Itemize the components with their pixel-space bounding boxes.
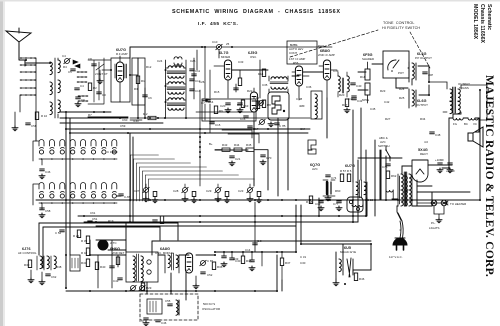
scattered labels (63, 57, 426, 131)
antenna coupling coil (174, 57, 182, 65)
RF transformer T2 (165, 57, 187, 118)
svg-text:R44: R44 (234, 143, 240, 147)
capacitor C58a (26, 123, 37, 128)
resistor fill E (116, 257, 119, 265)
svg-text:C20: C20 (220, 104, 226, 108)
tube 6L6G pp output 1 (409, 52, 432, 85)
svg-text:P.L.: P.L. (431, 221, 436, 225)
svg-text:R12: R12 (146, 65, 152, 69)
svg-text:C3: C3 (102, 93, 106, 97)
coil box right (311, 91, 322, 119)
resistor R46 (354, 273, 364, 281)
tube 6Q7G AVC (308, 140, 335, 196)
svg-text:R46: R46 (359, 277, 365, 281)
svg-text:R62: R62 (391, 174, 397, 178)
svg-text:AVC: AVC (312, 167, 318, 171)
capacitor C46 (156, 320, 167, 325)
svg-text:C76: C76 (382, 165, 388, 169)
svg-text:25: 25 (226, 42, 230, 46)
svg-text:B+: B+ (209, 142, 213, 146)
resistor R1 (136, 76, 145, 84)
capacitor C41b (348, 96, 356, 101)
resistor R41 (81, 259, 90, 267)
to heater (417, 201, 466, 206)
capacitor C31b (249, 260, 255, 271)
shield box R3 (132, 58, 145, 105)
svg-text:2ND I.F AMP: 2ND I.F AMP (318, 53, 335, 57)
svg-text:C11: C11 (195, 69, 200, 73)
resistor R38 (56, 265, 62, 269)
wire bundle to RF tube (88, 58, 111, 104)
power switch (397, 206, 402, 221)
trimmer C44 (130, 285, 145, 290)
ground C9 (75, 102, 81, 107)
svg-text:SWITCH: SWITCH (378, 144, 389, 148)
svg-text:C64: C64 (300, 127, 306, 131)
tube element 6A8G (185, 253, 192, 273)
svg-text:MAGIC EYE: MAGIC EYE (340, 250, 356, 254)
svg-text:C4: C4 (62, 54, 66, 58)
capacitor C70 (260, 155, 272, 165)
ground 6Q7G (325, 182, 331, 201)
svg-text:R14: R14 (258, 72, 264, 76)
interstage transformer (353, 180, 367, 198)
svg-text:MAJESTIC RADIO & TELEV. CORP.: MAJESTIC RADIO & TELEV. CORP. (483, 75, 495, 277)
capacitor C8 wire (253, 202, 262, 252)
svg-text:R27: R27 (385, 117, 391, 121)
tube 6J5G osc (248, 51, 258, 122)
resistor R39 (81, 236, 90, 244)
oscillator coil (165, 253, 179, 273)
svg-text:4-40: 4-40 (133, 119, 139, 123)
svg-text:R17: R17 (342, 103, 348, 107)
svg-text:R22: R22 (247, 89, 253, 93)
tube 6U7G AF (340, 164, 355, 182)
tube 6F5G (362, 53, 374, 103)
svg-text:C48: C48 (435, 133, 441, 137)
svg-text:C36: C36 (306, 85, 312, 89)
capacitor C6b (143, 95, 152, 100)
svg-text:R40: R40 (100, 265, 106, 269)
trimmer C10 top (205, 40, 332, 58)
svg-text:R15: R15 (214, 90, 220, 94)
ground C7B (268, 122, 285, 128)
svg-text:R41: R41 (81, 261, 87, 265)
contact grid C (78, 95, 88, 102)
tube 6U5 magic eye (336, 246, 356, 279)
capacitor 40P (423, 72, 434, 77)
svg-text:Schematic: Schematic (486, 4, 492, 30)
phono switch box (70, 255, 80, 271)
svg-text:R9: R9 (219, 109, 223, 113)
resistor R2 (88, 83, 97, 91)
tube 6U7G 1st IF (292, 66, 309, 100)
capacitor C21 (229, 156, 241, 166)
svg-text:C19: C19 (315, 202, 321, 206)
antenna coil L2 (50, 62, 52, 115)
svg-text:R 10: R 10 (41, 114, 47, 118)
svg-text:C58: C58 (45, 209, 51, 213)
resistor fill B (238, 78, 241, 86)
tube 6H6G (98, 240, 125, 256)
svg-text:CONT: CONT (289, 51, 297, 55)
output transformer (429, 82, 487, 120)
resistors R43 R44 R45 (215, 143, 268, 151)
ground AF2 (39, 272, 45, 285)
wire fills mixer-left (98, 50, 240, 288)
svg-text:C58: C58 (31, 124, 37, 128)
svg-text:SHADED: SHADED (362, 57, 374, 61)
svg-text:MODEL 1856X: MODEL 1856X (472, 4, 478, 40)
transformer primary coil (386, 190, 393, 199)
svg-text:4MF: 4MF (299, 104, 305, 108)
svg-text:C30: C30 (300, 261, 306, 265)
resistor R16 (253, 96, 260, 109)
capacitor fill C (234, 88, 239, 90)
resistor R30 (24, 260, 32, 268)
capacitor C14b (203, 99, 214, 104)
capacitor C48 (430, 132, 441, 137)
tube 6B8G 2nd IF (318, 44, 337, 98)
capacitor C4b (75, 84, 84, 90)
svg-text:R.F AMP: R.F AMP (116, 52, 128, 56)
svg-text:C28: C28 (173, 189, 179, 193)
svg-text:C8: C8 (88, 57, 92, 61)
tube 6L6G output 2 (409, 89, 428, 108)
capacitor C40 (351, 83, 362, 88)
svg-text:R38: R38 (56, 265, 62, 269)
pilot lights (429, 200, 447, 230)
svg-text:C46: C46 (161, 321, 167, 325)
resistor R29 (141, 283, 151, 291)
trimmer C18 (259, 119, 265, 124)
capacitor C74 (326, 175, 337, 180)
tube 6U7G RF amp (102, 48, 138, 102)
power transformer (398, 172, 412, 206)
capacitor C51 (88, 217, 98, 223)
svg-text:R33: R33 (233, 257, 239, 261)
svg-text:R23: R23 (380, 89, 386, 93)
svg-text:C16: C16 (240, 117, 246, 121)
svg-text:C21: C21 (235, 157, 241, 161)
svg-text:R3: R3 (134, 87, 138, 91)
resistor R2b on line (143, 112, 156, 120)
svg-text:C43: C43 (113, 279, 119, 283)
svg-text:R.16: R.16 (253, 96, 259, 100)
resistor R9 (214, 106, 223, 114)
wire x260 (259, 60, 261, 98)
svg-text:SCHEMATIC WIRING DIAGRAM -: SCHEMATIC WIRING DIAGRAM - CHASSIS 11856… (172, 9, 341, 15)
rotary switch row 1 (33, 140, 117, 166)
contact grid B (77, 71, 87, 83)
capacitor C62 (46, 274, 57, 279)
svg-text:R4: R4 (63, 65, 67, 69)
speaker field coil FG BC VC (449, 118, 479, 126)
svg-text:R18: R18 (360, 75, 366, 79)
svg-text:TONE CONTROL: TONE CONTROL (383, 21, 415, 25)
svg-text:C33: C33 (238, 60, 244, 64)
svg-text:C15: C15 (215, 123, 221, 127)
svg-text:OUTPUT: OUTPUT (416, 103, 428, 107)
socket box circles (347, 197, 363, 212)
resistor R14 (258, 69, 266, 77)
svg-text:R7: R7 (88, 113, 92, 117)
capacitor C58 (39, 208, 51, 218)
wires bottom mid (224, 252, 282, 280)
padder trimmer row (134, 184, 262, 203)
svg-text:R 42: R 42 (81, 251, 87, 255)
trimmer C4 (62, 54, 70, 64)
dashed link lines (290, 30, 430, 68)
staircase wires (222, 130, 259, 143)
svg-text:C4: C4 (80, 84, 84, 88)
svg-text:R43: R43 (222, 143, 228, 147)
svg-text:AF CONTROL: AF CONTROL (18, 251, 37, 255)
svg-text:C40: C40 (356, 84, 362, 88)
svg-text:C14: C14 (245, 248, 251, 252)
svg-text:R19: R19 (108, 219, 114, 223)
capacitor C17 (248, 126, 259, 131)
svg-text:C23: C23 (238, 189, 244, 193)
resistor R4B (306, 196, 313, 204)
tube 6J7G AF control (18, 247, 56, 270)
box auto level control (287, 41, 317, 64)
svg-text:RECT.: RECT. (420, 152, 429, 156)
svg-text:C77: C77 (333, 202, 339, 206)
capacitor C65 row2 (119, 194, 131, 199)
trimmer C22 (258, 100, 264, 105)
svg-text:A.TC: A.TC (110, 241, 117, 245)
svg-text:R 20: R 20 (73, 234, 79, 238)
svg-text:C10: C10 (212, 40, 218, 44)
svg-text:C61: C61 (90, 211, 96, 215)
svg-text:VC: VC (473, 122, 477, 126)
svg-text:C 7B: C 7B (279, 124, 285, 128)
IF transformer T3 horizontal (269, 76, 288, 92)
svg-text:C52: C52 (207, 273, 213, 277)
svg-text:C51: C51 (92, 217, 98, 221)
tone control text (382, 21, 420, 30)
capacitor C30 (230, 258, 241, 263)
svg-text:R30: R30 (24, 263, 30, 267)
svg-text:C5: C5 (68, 70, 72, 74)
ground antenna (12, 112, 18, 131)
resistor R62 (386, 171, 396, 179)
svg-text:C59: C59 (120, 124, 126, 128)
svg-text:C46: C46 (45, 170, 51, 174)
svg-text:Chassis 11656X: Chassis 11656X (479, 4, 485, 43)
capacitor C11 (190, 69, 201, 73)
resistor R37 (280, 258, 290, 266)
svg-text:C 52: C 52 (55, 231, 61, 235)
main wiring (26, 47, 480, 300)
svg-text:C6: C6 (148, 96, 152, 100)
svg-text:MIXER: MIXER (221, 55, 230, 59)
capacitor C41 (352, 98, 363, 103)
capacitor C05 (221, 256, 227, 267)
capacitor C43 (113, 278, 122, 283)
capacitor C76 (382, 164, 390, 169)
svg-text:I.F. 455 KC'S.: I.F. 455 KC'S. (198, 21, 238, 27)
capacitor C9 (76, 97, 85, 102)
junction dots x200 (199, 136, 201, 158)
svg-text:C29: C29 (206, 189, 212, 193)
antenna coil L1 (55, 58, 60, 118)
ground magic eye (333, 281, 339, 286)
svg-text:C62: C62 (51, 275, 57, 279)
capacitor fill F (153, 216, 164, 224)
resistor R8 (262, 100, 271, 108)
capacitor C13 (190, 89, 201, 93)
svg-text:POT: POT (398, 71, 404, 75)
resistor R6 (237, 100, 245, 108)
svg-text:R37: R37 (285, 261, 291, 265)
capacitor C52b (55, 230, 64, 235)
svg-text:2 DET CT: 2 DET CT (95, 72, 108, 76)
corner model text (472, 4, 492, 43)
svg-text:C41: C41 (348, 97, 354, 101)
capacitor fill A (192, 74, 197, 76)
resistor R42 (81, 248, 90, 256)
IF transformer T4 (338, 72, 349, 97)
capacitor C50 +10MF (446, 163, 455, 173)
oscillator shield box (202, 99, 256, 121)
resistor R20 (73, 230, 81, 238)
svg-text:R 57 R 5: R 57 R 5 (340, 169, 352, 173)
ground 6A8G (193, 276, 199, 289)
svg-text:R34: R34 (420, 117, 426, 121)
plug 117 VAC (389, 238, 407, 259)
capacitor C52 (201, 272, 213, 277)
ground AF1 (28, 270, 34, 283)
svg-text:C 19: C 19 (107, 150, 113, 154)
rotary switch row 2 (33, 183, 117, 210)
resistor R40 (95, 262, 105, 270)
capacitor C3 (97, 92, 106, 97)
svg-text:C35: C35 (262, 83, 268, 87)
svg-text:TO HEATER: TO HEATER (450, 202, 466, 206)
wires mixer (130, 47, 310, 186)
svg-text:C45: C45 (370, 107, 376, 111)
svg-text:P.P OUTPUT: P.P OUTPUT (415, 56, 432, 60)
svg-text:C70: C70 (266, 156, 272, 160)
svg-text:R 39: R 39 (81, 239, 87, 243)
svg-text:C74: C74 (331, 176, 337, 180)
resistor R10 (35, 112, 47, 120)
capacitor C47 (139, 318, 149, 326)
svg-text:TRANS: TRANS (459, 86, 469, 90)
capacitor C49 +10MF (435, 158, 444, 173)
svg-text:R24: R24 (399, 87, 405, 91)
label 4-40 (130, 119, 142, 123)
svg-text:C24: C24 (157, 59, 163, 63)
svg-text:6F5G: 6F5G (362, 98, 370, 102)
capacitor C15 (210, 122, 221, 127)
capacitor C16 (240, 116, 248, 121)
svg-text:500 KC'S: 500 KC'S (203, 302, 215, 306)
svg-text:C39: C39 (333, 69, 339, 73)
svg-text:LIGHTS: LIGHTS (429, 226, 440, 230)
antenna (6, 28, 31, 66)
svg-text:R20: R20 (339, 93, 345, 97)
svg-text:HI FIDELITY SWITCH: HI FIDELITY SWITCH (382, 26, 420, 30)
svg-text:6U7G: 6U7G (345, 164, 355, 168)
svg-text:C 31: C 31 (300, 255, 306, 259)
svg-text:C27: C27 (134, 189, 140, 193)
svg-text:2ND DET: 2ND DET (112, 251, 125, 255)
svg-text:OSCILLATOR: OSCILLATOR (202, 307, 220, 311)
speaker horn (468, 127, 483, 147)
svg-text:BC: BC (464, 122, 468, 126)
capacitor C19 (315, 201, 324, 211)
svg-text:C60: C60 (122, 118, 128, 122)
diode arrows (73, 60, 80, 68)
capacitor C2 (92, 64, 97, 66)
capacitor C7 (201, 100, 210, 105)
band switch contact grid (20, 57, 36, 130)
2nd det wire + ground (95, 64, 108, 84)
socket box with jigsaw (268, 92, 289, 120)
capacitor C77 (333, 201, 342, 211)
svg-text:OSC.: OSC. (250, 55, 257, 59)
capacitor C20 (220, 103, 231, 113)
wire bundle fan (131, 155, 255, 201)
svg-text:C63: C63 (243, 104, 249, 108)
ABC AVC switch (378, 136, 391, 161)
tube 6A8G osc mod (126, 247, 174, 282)
horizontal coil (352, 205, 363, 207)
resistor R17 (342, 99, 350, 113)
dashed 500kc oscillator box (140, 294, 220, 320)
resistor R36 (212, 262, 222, 270)
capacitor C12 (190, 79, 201, 83)
svg-text:C42: C42 (384, 100, 390, 104)
svg-text:C25: C25 (190, 59, 196, 63)
svg-text:4.0: 4.0 (424, 140, 428, 144)
resistor R35 (241, 256, 251, 264)
capacitor C63 (237, 103, 249, 113)
capacitor C65 (200, 259, 214, 266)
tone pot box (383, 51, 409, 78)
svg-text:+10MF: +10MF (435, 158, 444, 162)
scan edge shading (0, 0, 3, 326)
svg-text:R25: R25 (399, 96, 405, 100)
svg-text:R60: R60 (335, 189, 341, 193)
tube 5X4G rectifier (412, 148, 429, 182)
svg-text:R1: R1 (141, 79, 145, 83)
svg-text:C26: C26 (199, 80, 205, 84)
svg-text:R2: R2 (93, 86, 97, 90)
svg-text:R45: R45 (246, 143, 252, 147)
capacitor C46 (39, 169, 51, 179)
svg-text:C55: C55 (165, 299, 171, 303)
capacitor fill D (110, 266, 115, 268)
svg-text:R56: R56 (293, 61, 299, 65)
tube 6L7G mixer (214, 51, 240, 98)
svg-text:117 V.A.C.: 117 V.A.C. (389, 255, 403, 259)
capacitor C5 (68, 69, 75, 74)
